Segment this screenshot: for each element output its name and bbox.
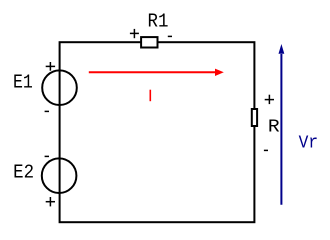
E1 plus polarity: [46, 62, 55, 71]
R1 minus polarity: [168, 35, 172, 37]
E2 plus polarity: [46, 197, 55, 206]
resistor R1: [141, 37, 157, 47]
voltage arrow Vr: [280, 54, 282, 205]
svg-text:Vr: Vr: [299, 132, 318, 153]
R1 plus polarity: [130, 29, 139, 38]
R minus polarity: [264, 149, 268, 151]
label I: [149, 90, 151, 102]
E1 minus polarity: [45, 110, 49, 112]
svg-text:R1: R1: [148, 11, 169, 33]
current arrow I: [89, 71, 216, 73]
resistor R: [252, 109, 257, 126]
E2 minus polarity: [45, 155, 49, 157]
svg-text:E1: E1: [13, 72, 33, 94]
svg-text:R: R: [268, 116, 280, 137]
R plus polarity: [265, 95, 274, 104]
wire: main loop (top, left, right, bottom): [60, 42, 255, 222]
source E1: [42, 70, 77, 105]
source E2: [42, 158, 77, 193]
svg-text:E2: E2: [13, 162, 34, 184]
